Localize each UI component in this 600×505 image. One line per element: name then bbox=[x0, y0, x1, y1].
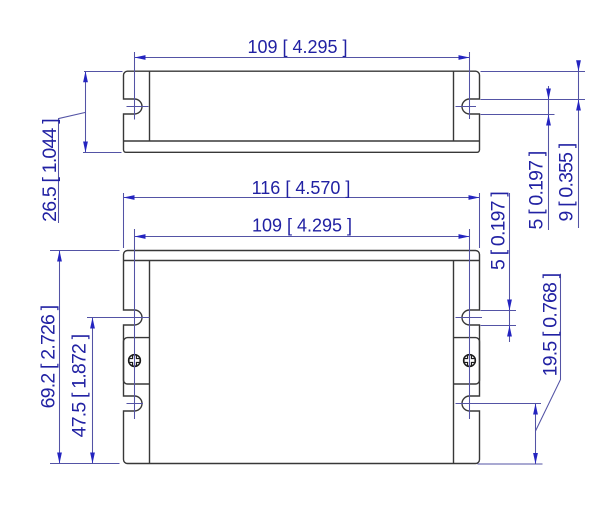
dim 69.2 dimension line bbox=[59, 251, 61, 464]
side view left inner line bbox=[149, 71, 151, 141]
dim 116 extension left bbox=[123, 193, 125, 248]
dim 47.5 extension / upper-left slot centreline bbox=[87, 317, 150, 319]
front view right inner line bbox=[453, 261, 455, 464]
svg-text:26.5 [ 1.044 ]: 26.5 [ 1.044 ] bbox=[39, 119, 61, 222]
svg-text:19.5 [ 0.768 ]: 19.5 [ 0.768 ] bbox=[540, 273, 562, 376]
dim 109 front-view extension/centre line right bbox=[469, 229, 471, 419]
dim 47.5 dimension line bbox=[92, 318, 94, 464]
arrow 9 top (outside, points down) bbox=[576, 60, 581, 71]
arrow 109 top-view left bbox=[135, 55, 146, 60]
side view right inner line bbox=[453, 71, 455, 141]
arrow 5 front-view top (outside, points down) bbox=[507, 300, 512, 311]
arrow 109 front-view right bbox=[459, 234, 470, 239]
arrow 109 front-view left bbox=[135, 234, 146, 239]
arrow 19.5 bottom bbox=[533, 453, 538, 464]
dim 5 (front view) extension bottom bbox=[481, 325, 517, 327]
arrow 47.5 bottom bbox=[90, 453, 95, 464]
left screw clamp plate bbox=[124, 338, 150, 384]
side view top edge extension right bbox=[481, 71, 586, 73]
side view left slot centreline bbox=[127, 106, 149, 108]
svg-text:5 [ 0.197 ]: 5 [ 0.197 ] bbox=[487, 192, 509, 270]
side view right slot centreline bbox=[456, 106, 477, 108]
dim 26.5 dimension line bbox=[85, 71, 87, 152]
arrow 26.5 bottom bbox=[83, 142, 88, 153]
left screw M1 bbox=[129, 355, 141, 367]
arrow 116 left bbox=[124, 195, 135, 200]
dim 26.5 leader + underline bbox=[59, 112, 86, 223]
side view slot bottom extension right bbox=[481, 114, 555, 116]
dim 69.2 extension top bbox=[50, 250, 120, 252]
front view outline with four mounting slots bbox=[124, 251, 480, 464]
svg-text:9 [ 0.355 ]: 9 [ 0.355 ] bbox=[556, 143, 578, 221]
side view base plate top line bbox=[124, 140, 480, 142]
dim 109 front-view extension/centre line left bbox=[134, 229, 136, 419]
svg-text:5 [ 0.197 ]: 5 [ 0.197 ] bbox=[526, 151, 548, 229]
dim 19.5 leader + underline bbox=[536, 274, 561, 431]
dim 109 top-view extension/centre line left bbox=[134, 52, 136, 120]
dim 116 dimension line bbox=[124, 197, 480, 199]
dim 19.5 dimension line bbox=[535, 404, 537, 465]
right screw clamp plate bbox=[454, 338, 480, 384]
dim 109 front-view dimension line bbox=[135, 236, 470, 238]
svg-text:47.5 [ 1.872 ]: 47.5 [ 1.872 ] bbox=[68, 334, 90, 437]
dim 5 (side view) dimension line bbox=[548, 86, 550, 230]
dim 26.5 extension top bbox=[84, 71, 123, 73]
side view outline with mounting slots bbox=[124, 71, 480, 152]
upper-right slot centreline bbox=[456, 317, 483, 319]
arrow 19.5 top bbox=[533, 404, 538, 415]
dim 19.5 lower-right slot centreline extension bbox=[456, 403, 542, 405]
dim 26.5 extension bottom bbox=[83, 152, 122, 154]
dim 109 top-view extension/centre line right bbox=[469, 52, 471, 119]
dim 5 (front view) dimension line bbox=[509, 193, 511, 342]
arrow 9 bottom (outside, points up) bbox=[576, 100, 581, 111]
dim 109 top-view dimension line bbox=[135, 57, 470, 59]
dim 116 extension right bbox=[479, 193, 481, 248]
arrow 5 front-view bottom (outside, points up) bbox=[507, 326, 512, 337]
arrow 5 side-view top (outside, points down) bbox=[546, 89, 551, 100]
dim 69.2 extension bottom bbox=[50, 463, 120, 465]
dim 9 dimension line bbox=[578, 61, 580, 229]
dim 19.5 bottom extension bbox=[478, 463, 543, 465]
arrow 47.5 top bbox=[90, 318, 95, 329]
dim 5 (front view) extension top bbox=[481, 310, 517, 312]
arrow 5 side-view bottom (outside, points up) bbox=[546, 115, 551, 126]
arrow 69.2 bottom bbox=[57, 453, 62, 464]
svg-text:109 [ 4.295 ]: 109 [ 4.295 ] bbox=[247, 37, 347, 57]
svg-text:69.2 [ 2.726 ]: 69.2 [ 2.726 ] bbox=[38, 305, 60, 408]
arrow 109 top-view right bbox=[459, 55, 470, 60]
right screw M2 bbox=[464, 355, 476, 367]
arrow 26.5 top bbox=[83, 71, 88, 82]
lower-left slot centreline bbox=[127, 403, 144, 405]
side view slot top extension right bbox=[481, 99, 586, 101]
front view left inner line bbox=[149, 261, 151, 464]
arrow 116 right bbox=[469, 195, 480, 200]
svg-text:116 [ 4.570 ]: 116 [ 4.570 ] bbox=[252, 178, 351, 198]
arrow 69.2 top bbox=[57, 251, 62, 262]
front view flange line bbox=[124, 260, 480, 262]
svg-text:109 [ 4.295 ]: 109 [ 4.295 ] bbox=[252, 216, 352, 236]
